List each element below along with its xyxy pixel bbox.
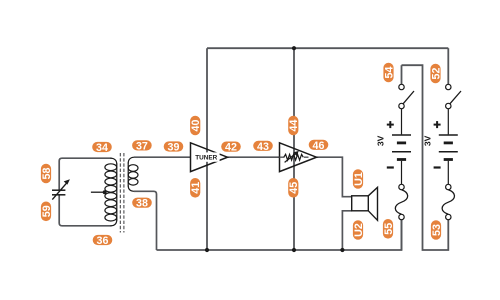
svg-text:40: 40 [190, 120, 202, 132]
wire left battery chain bottom stub [401, 220, 403, 250]
wire amplifier vertical (top rail to bottom rail through U4) [293, 48, 295, 250]
svg-text:53: 53 [431, 224, 443, 236]
op-amp U3 tuner triangle [191, 143, 228, 172]
junction dot at amplifier bottom rail [292, 248, 296, 252]
node label 41 [190, 178, 202, 198]
transformer T1 core [120, 153, 124, 233]
node label 44 [288, 116, 300, 136]
resistor (variable) inside amplifier [280, 151, 309, 163]
wire top rail [207, 47, 448, 49]
battery B2 plus sign [434, 121, 441, 128]
node label U2 [353, 220, 365, 240]
flexible connector (53) circles and S-wire [442, 184, 454, 219]
wire tank circuit top (cap to primary coil) [59, 158, 111, 189]
svg-text:39: 39 [168, 141, 180, 153]
op-amp U3 tuner label [193, 152, 220, 161]
node label 55 [383, 219, 395, 239]
svg-text:42: 42 [225, 142, 237, 154]
svg-text:52: 52 [430, 68, 442, 80]
svg-text:34: 34 [96, 142, 108, 154]
switch S2 (52) terminals and lever [446, 84, 461, 108]
transformer T1 primary center tap [91, 190, 107, 194]
node label 52 [430, 64, 442, 84]
wire tank circuit bottom (cap to primary coil) [59, 195, 111, 225]
wire bottom rail [157, 220, 402, 250]
svg-text:41: 41 [190, 182, 202, 194]
node label 53 [431, 220, 443, 240]
wire secondary bottom to bottom rail [134, 191, 157, 250]
svg-text:46: 46 [313, 140, 325, 152]
svg-text:3V: 3V [422, 135, 432, 146]
transformer T1 primary coil [105, 158, 117, 226]
node label 45 [288, 178, 300, 198]
wire left battery chain top stub [401, 65, 403, 84]
node label 38 [132, 198, 152, 210]
svg-text:43: 43 [257, 141, 269, 153]
battery B1 minus sign [387, 166, 394, 168]
node label 34 [92, 142, 112, 154]
battery B2 minus sign [434, 166, 441, 168]
wire speaker bottom to bottom rail [342, 211, 351, 250]
node label 36 [93, 235, 113, 247]
flexible connector (55) circles and S-wire [395, 184, 407, 219]
node label 54 [383, 63, 395, 83]
svg-text:45: 45 [288, 182, 300, 194]
wire amplifier output to speaker top [317, 157, 352, 197]
variable capacitor C1 plates [52, 190, 65, 195]
node label 46 [309, 140, 329, 152]
node label 58 [41, 164, 53, 184]
speaker U1/U2 box [352, 196, 369, 211]
svg-text:TUNER: TUNER [195, 155, 217, 162]
node label 42 [221, 142, 241, 154]
wire right battery chain drop from top rail [447, 48, 449, 84]
node label 39 [164, 141, 184, 153]
battery B1 3V [392, 109, 411, 185]
speaker U1/U2 cone [368, 187, 377, 220]
junction dot at amplifier top rail [292, 46, 296, 50]
svg-text:59: 59 [41, 205, 53, 217]
wire secondary top to tuner input [134, 156, 191, 158]
battery B1 plus sign [387, 121, 394, 128]
node label U1 [353, 169, 365, 189]
svg-text:37: 37 [136, 140, 148, 152]
variable capacitor C1 arrow [52, 179, 70, 199]
switch S1 (54) terminals and lever [399, 84, 414, 108]
svg-text:36: 36 [97, 235, 109, 247]
junction dot at tuner bottom rail [205, 248, 209, 252]
svg-text:U2: U2 [353, 223, 365, 237]
svg-text:3V: 3V [376, 135, 386, 146]
svg-text:55: 55 [383, 223, 395, 235]
node label 40 [190, 116, 202, 136]
node label 43 [253, 141, 273, 153]
svg-text:58: 58 [41, 168, 53, 180]
node label 37 [132, 140, 152, 152]
op-amp U4 amplifier triangle [280, 143, 317, 172]
wire battery series link (left chain top to right chain bottom) [402, 65, 449, 250]
svg-text:54: 54 [383, 67, 395, 79]
svg-text:U1: U1 [353, 172, 365, 186]
wire tuner output to amplifier input [228, 156, 280, 158]
transformer T1 secondary coil [128, 157, 138, 191]
junction dot at speaker bottom rail [340, 248, 344, 252]
battery B2 3V [439, 109, 458, 185]
wire tuner vertical (top rail to bottom rail through U3) [206, 48, 208, 250]
svg-text:38: 38 [136, 198, 148, 210]
svg-text:44: 44 [288, 120, 300, 132]
node label 59 [41, 202, 53, 222]
